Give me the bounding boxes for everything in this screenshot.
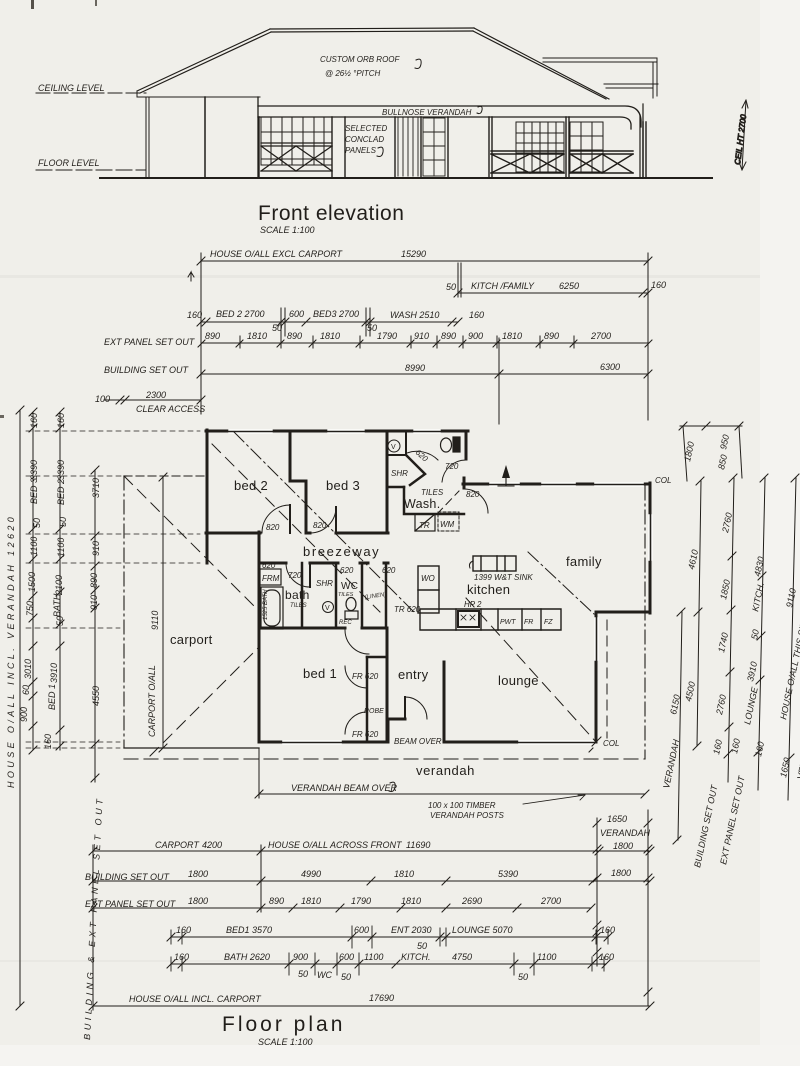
bottom extension line carport <box>260 845 262 912</box>
balustrade rail left section <box>261 143 332 171</box>
svg-text:1525 BATH: 1525 BATH <box>263 589 269 620</box>
svg-text:CEILING LEVEL: CEILING LEVEL <box>38 83 105 93</box>
svg-text:FZ: FZ <box>544 619 553 626</box>
vanity basin circle <box>388 440 400 452</box>
svg-text:160: 160 <box>469 310 484 320</box>
svg-text:COL: COL <box>603 739 619 748</box>
svg-text:160: 160 <box>174 952 189 962</box>
svg-text:600: 600 <box>289 309 304 319</box>
svg-text:160: 160 <box>599 952 614 962</box>
bath door arc 720 <box>286 563 310 587</box>
svg-text:verandah: verandah <box>416 763 475 778</box>
divider bed2 bed3 <box>290 431 306 533</box>
right verandah dim line <box>678 612 682 840</box>
svg-text:Wash.: Wash. <box>404 497 440 511</box>
lounge south wall <box>444 741 596 744</box>
roof diagonal carport C <box>150 648 258 756</box>
wc door arc 720 <box>442 460 466 482</box>
svg-text:50: 50 <box>446 282 456 292</box>
svg-text:bed 2: bed 2 <box>234 478 268 493</box>
robe west wall <box>366 657 369 740</box>
svg-text:820: 820 <box>266 523 280 532</box>
svg-text:890: 890 <box>544 331 559 341</box>
svg-text:2700: 2700 <box>540 896 561 906</box>
svg-text:3010: 3010 <box>23 659 33 679</box>
svg-text:TR 620: TR 620 <box>394 605 421 614</box>
svg-text:BULLNOSE VERANDAH: BULLNOSE VERANDAH <box>382 108 472 117</box>
svg-text:1800: 1800 <box>611 868 631 878</box>
svg-text:SHR: SHR <box>391 469 408 478</box>
svg-text:2690: 2690 <box>461 896 482 906</box>
svg-text:50: 50 <box>749 629 761 641</box>
dim row kitch/family <box>458 292 648 294</box>
right dim line C <box>758 478 765 790</box>
svg-text:1100: 1100 <box>537 952 556 962</box>
lounge east wall <box>595 612 598 742</box>
svg-text:HOUSE O/ALL EXCL CARPORT: HOUSE O/ALL EXCL CARPORT <box>210 249 344 259</box>
svg-text:750: 750 <box>25 601 35 616</box>
shower door arc 620 <box>407 451 438 460</box>
roof ridge <box>270 28 474 32</box>
svg-text:5390: 5390 <box>498 869 518 879</box>
svg-text:WC: WC <box>317 970 332 980</box>
wash roof diagonal <box>437 491 459 514</box>
svg-text:2100: 2100 <box>54 575 64 596</box>
svg-text:FLOOR LEVEL: FLOOR LEVEL <box>38 158 100 168</box>
svg-text:Floor plan: Floor plan <box>222 1013 345 1036</box>
right wall <box>640 104 643 177</box>
right top mini dim line <box>680 425 742 427</box>
svg-text:50: 50 <box>518 972 528 982</box>
svg-text:SCALE 1:100: SCALE 1:100 <box>258 1037 313 1047</box>
svg-text:BED 1: BED 1 <box>47 684 57 710</box>
dim row B1 carport house across front <box>93 850 650 852</box>
svg-text:1100: 1100 <box>29 537 39 556</box>
wall step bed2 to bath block <box>258 532 261 564</box>
toilet wash <box>441 437 461 452</box>
svg-text:50: 50 <box>55 616 65 626</box>
bed1 south window <box>283 741 341 744</box>
svg-text:2700: 2700 <box>590 331 611 341</box>
breezeway west post <box>206 534 209 563</box>
svg-text:50: 50 <box>417 941 427 951</box>
bottom extension line right <box>647 810 649 1006</box>
svg-text:HOUSE O/ALL INCL. CARPORT: HOUSE O/ALL INCL. CARPORT <box>129 994 262 1004</box>
carport dim line <box>147 473 167 752</box>
wc linen divider <box>361 563 364 628</box>
svg-text:carport: carport <box>170 632 213 647</box>
extension line left x201 <box>200 253 202 414</box>
svg-text:160: 160 <box>600 925 615 935</box>
svg-text:COL: COL <box>655 476 671 485</box>
verandah beam dim line <box>255 748 649 798</box>
svg-text:VERANDAH: VERANDAH <box>600 828 651 838</box>
svg-text:890: 890 <box>287 331 302 341</box>
svg-text:FRM: FRM <box>262 574 280 583</box>
svg-text:PANELS: PANELS <box>345 146 377 155</box>
right rotated set out labels <box>692 774 747 869</box>
svg-text:1810: 1810 <box>301 896 321 906</box>
rear wing parapet right <box>543 58 658 88</box>
svg-text:WC: WC <box>341 581 358 592</box>
family north windows <box>490 483 643 486</box>
family north wall <box>463 483 650 486</box>
svg-text:V: V <box>325 605 330 612</box>
svg-text:1399 W&T SINK: 1399 W&T SINK <box>474 573 533 582</box>
svg-text:50: 50 <box>32 518 42 528</box>
svg-text:100: 100 <box>95 394 110 404</box>
hall east wall to front <box>386 628 389 742</box>
roof diagonal lounge E <box>466 598 596 742</box>
window grid left <box>261 117 332 165</box>
squiggle after verandah label <box>477 106 482 113</box>
note squiggle <box>415 59 421 68</box>
svg-text:SHR: SHR <box>316 579 333 588</box>
svg-text:1790: 1790 <box>377 331 397 341</box>
svg-text:HOUSE O/ALL INCL. VERANDAH 126: HOUSE O/ALL INCL. VERANDAH 12620 <box>6 514 16 788</box>
svg-text:entry: entry <box>398 667 429 682</box>
svg-text:CONCLAD: CONCLAD <box>345 135 384 144</box>
dim row B5 bath wc kitchen <box>171 963 606 965</box>
svg-text:1100: 1100 <box>56 538 66 557</box>
lounge south window <box>519 741 594 744</box>
linen closet <box>385 563 388 628</box>
svg-text:890: 890 <box>269 896 284 906</box>
left dashed connectors <box>26 430 200 432</box>
svg-text:890: 890 <box>205 331 220 341</box>
extension line right x648 <box>647 253 649 420</box>
bed1 west wall <box>258 563 261 742</box>
family step wall <box>596 611 650 614</box>
vanity compartment wall <box>387 431 406 455</box>
svg-text:kitchen: kitchen <box>467 582 510 597</box>
svg-text:3710: 3710 <box>91 478 101 498</box>
svg-text:6300: 6300 <box>600 362 620 372</box>
svg-text:160: 160 <box>651 280 666 290</box>
svg-text:890: 890 <box>441 331 456 341</box>
small arrow mark <box>188 272 194 281</box>
svg-text:1810: 1810 <box>320 331 340 341</box>
shr wall south <box>387 486 404 489</box>
svg-text:160: 160 <box>29 413 39 428</box>
svg-text:WM: WM <box>440 520 455 529</box>
wash east wall upper <box>465 431 468 459</box>
svg-text:620: 620 <box>340 566 354 575</box>
kitchen island bench sink <box>469 556 516 571</box>
left overall line house o/all incl verandah <box>19 410 21 1006</box>
roof diagonal A <box>212 444 380 612</box>
svg-text:9110: 9110 <box>150 611 160 630</box>
left dim line col4 <box>94 470 96 782</box>
dim row bed2 bed3 wash <box>201 321 458 323</box>
floor level line <box>36 169 146 171</box>
family east wall <box>649 483 652 613</box>
svg-text:620: 620 <box>382 566 396 575</box>
svg-text:SELECTED: SELECTED <box>345 124 387 133</box>
svg-text:HP 2: HP 2 <box>464 600 482 609</box>
entry door arc <box>405 697 427 719</box>
svg-text:4750: 4750 <box>452 952 472 962</box>
right dim line B <box>728 478 734 782</box>
svg-text:820: 820 <box>466 490 480 499</box>
window top wall bed3 <box>328 430 364 433</box>
dim row B4 rooms across <box>171 936 608 938</box>
svg-text:CLEAR ACCESS: CLEAR ACCESS <box>136 404 205 414</box>
divider bed3 wash <box>386 431 389 533</box>
svg-text:3910: 3910 <box>49 663 59 683</box>
bed1 door arc <box>345 630 369 654</box>
wall bed2 south <box>206 532 260 535</box>
svg-text:FR: FR <box>524 619 533 626</box>
carport south edge <box>124 747 259 749</box>
window top wall bed2 <box>229 430 272 433</box>
svg-text:160: 160 <box>187 310 202 320</box>
family east window <box>649 515 652 560</box>
ceil ht dimension arrow <box>733 100 748 170</box>
svg-text:bath: bath <box>285 588 310 602</box>
svg-text:TILES: TILES <box>290 603 307 609</box>
svg-text:PWT: PWT <box>500 619 516 626</box>
svg-text:15290: 15290 <box>401 249 426 259</box>
svg-text:bed 3: bed 3 <box>326 478 360 493</box>
svg-text:4200: 4200 <box>202 840 222 850</box>
lounge east window <box>595 618 598 660</box>
bed3 door arc 820 <box>310 507 336 533</box>
svg-text:4550: 4550 <box>91 686 101 706</box>
svg-text:CARPORT: CARPORT <box>155 840 200 850</box>
right dim line D <box>788 478 796 800</box>
svg-text:KITCH /FAMILY: KITCH /FAMILY <box>471 281 535 291</box>
svg-text:FR 620: FR 620 <box>352 672 379 681</box>
svg-text:BED 2: BED 2 <box>56 479 66 505</box>
verandah fascia left return <box>257 97 259 177</box>
wash south wall <box>404 487 464 514</box>
left wall <box>146 97 149 177</box>
dim row house o/all excl carport <box>201 260 648 262</box>
svg-text:HOUSE O/ALL ACROSS FRONT: HOUSE O/ALL ACROSS FRONT <box>268 840 403 850</box>
svg-text:WASH 2510: WASH 2510 <box>390 310 439 320</box>
verandah front dashed edge <box>124 758 645 760</box>
svg-text:1100: 1100 <box>364 952 383 962</box>
svg-text:50: 50 <box>298 969 308 979</box>
svg-text:50: 50 <box>272 323 282 333</box>
roof right slope <box>473 28 609 99</box>
shower diagonal wall <box>407 456 425 485</box>
svg-text:SCALE 1:100: SCALE 1:100 <box>260 225 315 235</box>
robe door arc upper <box>345 666 367 688</box>
svg-text:BEAM OVER: BEAM OVER <box>394 737 442 746</box>
svg-text:1810: 1810 <box>247 331 267 341</box>
svg-text:VERANDAH BEAM OVER: VERANDAH BEAM OVER <box>291 783 398 793</box>
roof left slope <box>137 29 271 93</box>
dim row B6 house o/all incl carport <box>93 1005 650 1007</box>
svg-text:600: 600 <box>354 925 369 935</box>
dim row clear access <box>104 399 201 401</box>
breezeway wall stub bed3 <box>306 532 310 535</box>
verandah fascia band bullnose <box>258 106 641 129</box>
svg-text:Front elevation: Front elevation <box>258 202 404 225</box>
ground line <box>100 177 712 179</box>
svg-text:1650: 1650 <box>607 814 627 824</box>
svg-text:600: 600 <box>339 952 354 962</box>
carport north boundary <box>124 475 207 477</box>
svg-text:BED 2 2700: BED 2 2700 <box>216 309 265 319</box>
svg-text:910: 910 <box>414 331 429 341</box>
svg-text:ENT 2030: ENT 2030 <box>391 925 432 935</box>
selected conclad panels note <box>345 124 387 155</box>
svg-text:1800: 1800 <box>188 869 208 879</box>
bath tub <box>261 587 283 629</box>
svg-text:8990: 8990 <box>405 363 425 373</box>
svg-text:3390: 3390 <box>29 460 39 480</box>
svg-text:900: 900 <box>19 707 29 722</box>
bottom extension line left <box>92 845 94 1010</box>
bed2 door arc 820 <box>262 505 290 533</box>
roof diagonal A2 <box>234 432 414 612</box>
svg-text:2300: 2300 <box>145 390 166 400</box>
wash east wall lower <box>463 478 466 488</box>
svg-text:BUILDING SET OUT: BUILDING SET OUT <box>104 365 190 375</box>
window grid right <box>570 122 603 172</box>
balustrade rail right section <box>570 151 633 173</box>
shr wc divider <box>335 563 338 628</box>
svg-text:1800: 1800 <box>188 896 208 906</box>
svg-text:TR: TR <box>419 521 430 530</box>
svg-text:50: 50 <box>341 972 351 982</box>
svg-text:1790: 1790 <box>351 896 371 906</box>
svg-text:REC: REC <box>339 620 352 626</box>
svg-text:900: 900 <box>468 331 483 341</box>
window grid middle <box>516 122 564 172</box>
wc toilet <box>345 598 358 620</box>
svg-text:160: 160 <box>56 413 66 428</box>
svg-text:BED1 3570: BED1 3570 <box>226 925 272 935</box>
svg-text:LOUNGE 5070: LOUNGE 5070 <box>452 925 513 935</box>
svg-text:910: 910 <box>89 595 99 610</box>
lounge east roof dash line <box>606 620 608 738</box>
svg-text:VERANDAH POSTS: VERANDAH POSTS <box>430 811 504 820</box>
svg-text:TILES: TILES <box>421 488 444 497</box>
robe door arc lower <box>345 712 367 734</box>
svg-text:KITCH.: KITCH. <box>401 952 431 962</box>
svg-text:CUSTOM ORB ROOF: CUSTOM ORB ROOF <box>320 55 401 64</box>
bath shr divider <box>301 563 304 628</box>
robe top wall <box>367 656 387 659</box>
window top wall wash <box>414 430 440 433</box>
svg-text:V: V <box>391 444 396 451</box>
wall bed2 west <box>206 430 209 534</box>
svg-text:FR 620: FR 620 <box>352 730 379 739</box>
breezeway south wall of bed3 <box>336 532 388 535</box>
north arrow <box>498 470 514 486</box>
svg-text:BED 3: BED 3 <box>29 478 39 504</box>
verandah east dashdot edge <box>644 486 646 759</box>
glazed entry door <box>423 118 445 176</box>
svg-text:50: 50 <box>367 323 377 333</box>
eave fascia line <box>137 92 260 97</box>
svg-text:BATH 2620: BATH 2620 <box>224 952 270 962</box>
svg-text:160: 160 <box>176 925 191 935</box>
svg-text:1800: 1800 <box>613 841 633 851</box>
carport west boundary <box>123 476 125 748</box>
svg-text:720: 720 <box>288 571 302 580</box>
svg-text:family: family <box>566 554 602 569</box>
entry east wall <box>443 662 446 742</box>
svg-text:50: 50 <box>58 517 68 527</box>
svg-text:17690: 17690 <box>369 993 394 1003</box>
roof diagonal carport B <box>124 476 258 610</box>
svg-text:1500: 1500 <box>27 572 37 592</box>
outer wall top bed2 bed3 <box>206 430 468 433</box>
kitchen WO cabinet <box>418 566 439 613</box>
svg-text:100 x 100 TIMBER: 100 x 100 TIMBER <box>428 801 496 810</box>
ceiling level line <box>36 92 146 94</box>
TR closet <box>415 514 435 531</box>
svg-text:720: 720 <box>445 462 459 471</box>
svg-text:3390: 3390 <box>56 460 66 480</box>
balustrade rail mid section <box>491 151 564 173</box>
svg-text:lounge: lounge <box>498 673 539 688</box>
wall post mid-left <box>204 97 206 177</box>
FRM closet <box>260 569 281 585</box>
bath block north wall <box>259 562 388 565</box>
svg-text:bed 1: bed 1 <box>303 666 337 681</box>
entry porch return wall <box>388 719 405 742</box>
svg-text:CARPORT O/ALL: CARPORT O/ALL <box>147 665 157 737</box>
rear wing wall right <box>653 58 657 98</box>
svg-text:900: 900 <box>293 952 308 962</box>
svg-text:1810: 1810 <box>394 869 414 879</box>
kitchen bench south <box>420 609 561 630</box>
svg-text:1810: 1810 <box>502 331 522 341</box>
svg-text:890: 890 <box>89 573 99 588</box>
svg-text:@ 26½ °PITCH: @ 26½ °PITCH <box>325 69 381 78</box>
svg-text:1810: 1810 <box>401 896 421 906</box>
svg-text:160: 160 <box>43 734 53 749</box>
door wash to family arc 820 <box>464 489 488 513</box>
bed1 south wall <box>259 741 388 744</box>
svg-text:BATH: BATH <box>52 593 62 617</box>
right dim line A <box>697 481 701 746</box>
right mini dims verandah 1650 1800 <box>596 818 598 966</box>
svg-text:BED3 2700: BED3 2700 <box>313 309 359 319</box>
svg-text:11690: 11690 <box>406 840 430 850</box>
left dim line col2 <box>32 412 34 750</box>
svg-text:WO: WO <box>421 574 435 583</box>
panels squiggle <box>377 147 383 156</box>
svg-text:EXT PANEL SET OUT: EXT PANEL SET OUT <box>104 337 196 347</box>
left dim line col3 <box>59 412 61 750</box>
roof diagonal kitchen D <box>528 552 594 614</box>
bath block south wall <box>259 627 387 630</box>
WM recess <box>438 512 459 531</box>
svg-text:6250: 6250 <box>559 281 579 291</box>
svg-text:4990: 4990 <box>301 869 321 879</box>
svg-text:60: 60 <box>21 685 31 695</box>
conclad panel door planks <box>398 118 418 176</box>
svg-text:910: 910 <box>91 541 101 556</box>
verandah posts <box>259 117 448 177</box>
